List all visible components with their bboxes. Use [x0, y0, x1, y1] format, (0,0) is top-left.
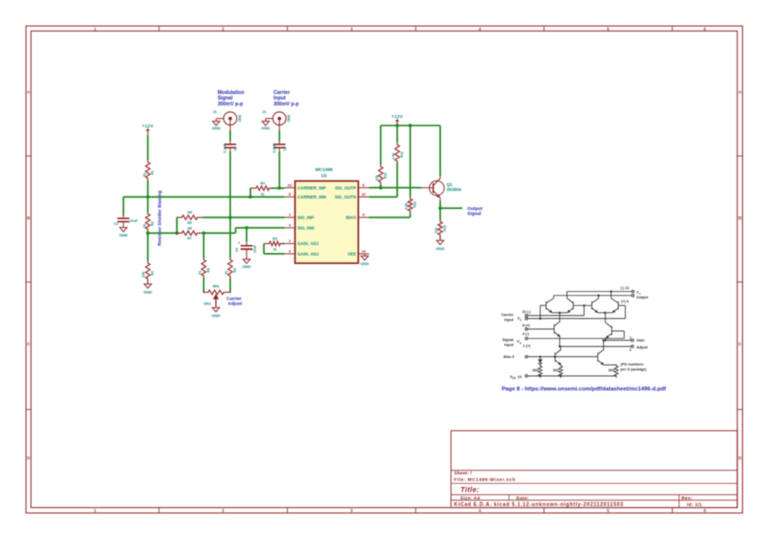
resistor R5 gain adjust	[264, 237, 284, 251]
inset junction bias diode	[539, 356, 541, 358]
svg-text:6: 6	[362, 183, 364, 187]
svg-text:1k: 1k	[142, 173, 146, 177]
wire node A to C3	[123, 196, 147, 198]
inset wire pin3 line	[560, 345, 632, 347]
inset junction vee diode	[539, 375, 541, 377]
wire CARRIER_INN row	[148, 196, 285, 198]
svg-text:(-) 12: (-) 12	[621, 286, 630, 290]
ground below R3	[143, 282, 152, 295]
junction R6 R7 node	[175, 231, 178, 234]
capacitor C3	[114, 215, 138, 226]
inset wire Q4a base	[618, 306, 625, 319]
inset junction bias Q7a	[554, 356, 556, 358]
svg-text:R4: R4	[260, 182, 264, 186]
wire down to C4	[246, 228, 248, 242]
svg-text:1M: 1M	[187, 211, 192, 215]
svg-text:500: 500	[533, 369, 539, 373]
note resistor divider biasing	[157, 190, 163, 246]
svg-text:R9: R9	[233, 268, 237, 272]
wire R2 to bias node B	[147, 231, 149, 233]
frame zone numbers top	[94, 26, 707, 31]
inset label pin8	[522, 324, 530, 328]
wire output stub	[440, 207, 462, 209]
frame zone letters right	[738, 90, 741, 461]
wire step up to SIG_INN	[235, 228, 237, 233]
svg-text:R5: R5	[273, 237, 277, 241]
inset transistor Q6a	[606, 323, 612, 338]
svg-text:Input: Input	[504, 318, 514, 322]
svg-text:GND: GND	[360, 261, 369, 266]
inset transistor Q8a	[598, 350, 604, 365]
resistor R9 pot chain right	[225, 258, 237, 278]
svg-text:A: A	[27, 90, 30, 95]
svg-text:C2: C2	[283, 146, 287, 150]
svg-text:2: 2	[630, 336, 632, 340]
wire R1 to bias node A	[147, 180, 149, 197]
op-amp U1 MC1496 body	[295, 181, 358, 263]
inset caption link	[502, 387, 666, 393]
svg-text:2: 2	[289, 239, 291, 243]
inset wire vee rail	[528, 375, 617, 377]
resistor R6 1M top	[177, 211, 204, 225]
svg-text:Output: Output	[467, 206, 483, 211]
inset terminal pin 6	[632, 294, 634, 296]
inset wire Q1a base	[540, 306, 546, 319]
svg-text:R11: R11	[400, 151, 404, 157]
svg-text:A: A	[738, 90, 741, 95]
inset label 500 left	[533, 369, 539, 373]
svg-text:File: MC1496-Mixer.sch: File: MC1496-Mixer.sch	[454, 477, 516, 482]
svg-text:1k: 1k	[142, 224, 146, 228]
svg-text:CARRIER_INP: CARRIER_INP	[297, 185, 326, 190]
wire J1 to C1	[229, 131, 231, 142]
inset junction pin2 node	[604, 339, 606, 341]
svg-text:10uF: 10uF	[130, 219, 138, 223]
junction output node	[439, 207, 442, 210]
svg-text:10k: 10k	[375, 175, 379, 181]
svg-text:GAIN_ADJ: GAIN_ADJ	[297, 241, 319, 246]
inset junction on pin12 rail	[610, 290, 612, 292]
svg-text:C: C	[520, 318, 522, 322]
inset terminal pin 5 bias	[525, 356, 527, 358]
inset wire Q8a collector riser	[602, 339, 604, 349]
svg-text:6.8k: 6.8k	[405, 203, 409, 210]
svg-text:51: 51	[261, 192, 265, 196]
svg-text:4 (-): 4 (-)	[522, 332, 529, 336]
svg-text:GND: GND	[119, 233, 128, 238]
svg-text:Output: Output	[636, 296, 649, 300]
inset wire pin2 line	[605, 339, 631, 341]
svg-text:GND: GND	[261, 126, 270, 131]
wire R7 node down to R8	[203, 233, 205, 258]
U1 pin 3 GAIN_ADJ	[285, 249, 320, 256]
U1 pin 4 SIG_INN	[285, 223, 315, 230]
transistor Q1 2N3904	[421, 176, 462, 201]
wire SIG_INP node down to R9	[229, 217, 231, 258]
svg-text:(+) 6: (+) 6	[621, 300, 629, 304]
frame zone ticks right	[737, 156, 742, 410]
frame zone letters left	[27, 90, 30, 461]
inset wire inner bases to pin10 line	[583, 306, 585, 316]
connector J2 BNC carrier	[262, 110, 291, 131]
svg-text:2N3904: 2N3904	[447, 187, 462, 192]
svg-text:R2: R2	[151, 221, 155, 225]
svg-text:51: 51	[198, 271, 202, 275]
inset wire right quad emitters	[598, 312, 613, 314]
inset resistor 500 left	[538, 364, 542, 378]
svg-text:BNC: BNC	[237, 115, 241, 123]
svg-text:GND: GND	[242, 264, 251, 269]
svg-text:S: S	[520, 341, 522, 345]
svg-text:MC1496: MC1496	[315, 167, 333, 172]
svg-text:per G package): per G package)	[621, 368, 648, 372]
junction carrier input node	[278, 186, 281, 189]
wire node B to R3	[147, 233, 149, 261]
ground at J2	[261, 119, 270, 131]
svg-text:Carrier: Carrier	[227, 296, 242, 301]
wire node A to R2	[147, 197, 149, 212]
wire down to C3	[122, 197, 124, 216]
svg-text:C3: C3	[114, 222, 118, 226]
inset transistor Q7a	[555, 350, 561, 365]
svg-text:GAIN_ADJ: GAIN_ADJ	[297, 251, 319, 256]
U1 pin 2 GAIN_ADJ	[285, 239, 320, 246]
inset label output	[621, 286, 649, 304]
inset wire Q5a emitter to pin3	[559, 337, 561, 347]
svg-text:3: 3	[289, 249, 291, 253]
wire SIG_OUTP row to Q1 base	[369, 187, 421, 189]
wire R13 to ground	[439, 237, 441, 239]
svg-text:Carrier: Carrier	[501, 313, 514, 317]
ground below C4	[242, 257, 251, 269]
svg-text:EE: EE	[512, 376, 516, 380]
svg-text:CARRIER_INN: CARRIER_INN	[297, 195, 326, 200]
inset transistor Q2a	[567, 298, 573, 312]
power +12V right	[391, 114, 403, 125]
svg-text:Signal: Signal	[502, 338, 513, 342]
inset wire Q7a collector riser	[560, 346, 562, 349]
resistor R4 carrier series	[250, 182, 272, 197]
resistor R13 emitter	[435, 220, 447, 237]
U1 pin 6 SIG_OUTP	[335, 183, 369, 190]
inset label gain adjust	[630, 336, 649, 352]
capacitor C2	[272, 141, 286, 153]
junction bias node B	[146, 231, 149, 234]
svg-text:1k: 1k	[273, 247, 277, 251]
wire +12V to R1	[147, 135, 149, 161]
inset terminal pin 10	[525, 314, 527, 316]
svg-text:KiCad E.D.A. kicad 5.1.12-unk: KiCad E.D.A. kicad 5.1.12-unknown-nightl…	[454, 502, 624, 508]
inset wire Q4a collector riser	[610, 292, 612, 299]
inset junction on pin6 rail	[598, 294, 600, 296]
svg-text:8: 8	[289, 193, 291, 197]
frame zone ticks top	[159, 26, 672, 31]
inset label carrier input	[501, 313, 522, 322]
svg-text:GND: GND	[143, 289, 152, 294]
U1 pin 5 BIAS	[346, 213, 369, 220]
svg-text:SIG_INN: SIG_INN	[297, 225, 314, 230]
wire SIG_OUTN row	[369, 196, 397, 198]
svg-text:1 (+): 1 (+)	[523, 344, 531, 348]
inset terminal pin 2	[631, 339, 633, 341]
svg-text:3: 3	[630, 348, 632, 352]
junction R12 at rail	[409, 124, 412, 127]
note output signal	[467, 206, 483, 216]
inset wire Q8a emitter over	[604, 365, 617, 366]
junction C4 tap	[245, 226, 248, 229]
wire R6 left down to node B row	[176, 217, 178, 233]
resistor R1 divider top	[142, 160, 154, 180]
power +12V left	[142, 123, 154, 134]
inset wire rail to pin 12	[567, 291, 632, 293]
svg-text:U1: U1	[321, 173, 327, 178]
wire rail down to R12	[409, 126, 411, 198]
svg-text:D: D	[738, 456, 741, 461]
inset wire pin4 line	[528, 328, 555, 330]
svg-text:R7: R7	[187, 237, 191, 241]
svg-text:BIAS: BIAS	[346, 215, 356, 220]
svg-text:C: C	[738, 342, 741, 347]
svg-text:GND: GND	[212, 313, 221, 318]
svg-text:12: 12	[361, 193, 365, 197]
capacitor C4 polarized	[235, 241, 257, 257]
title block sheet text	[454, 471, 516, 482]
inset wire pin10 line	[528, 315, 585, 317]
svg-text:100: 100	[435, 228, 439, 234]
wire C2 to CARRIER_INP node	[278, 151, 280, 188]
svg-text:VEE: VEE	[348, 251, 357, 256]
svg-text:GND: GND	[212, 126, 221, 131]
svg-text:Adjust: Adjust	[228, 301, 243, 306]
svg-text:Sheet: /: Sheet: /	[454, 471, 472, 476]
wire +12V rail	[381, 125, 441, 127]
svg-text:(Pin numbers: (Pin numbers	[621, 363, 644, 367]
title block title text	[461, 487, 480, 494]
junction bias node A	[146, 195, 149, 198]
svg-text:J2: J2	[262, 110, 266, 114]
inset label signal input	[502, 338, 521, 347]
svg-text:Size: A4: Size: A4	[460, 495, 480, 500]
svg-text:Id: 1/1: Id: 1/1	[687, 502, 702, 507]
svg-text:10 (-): 10 (-)	[522, 310, 531, 314]
svg-text:Resistor Divider Biasing: Resistor Divider Biasing	[157, 190, 163, 246]
inset label 500 middle	[553, 369, 559, 373]
svg-text:8 (+): 8 (+)	[522, 324, 530, 328]
svg-text:GND: GND	[436, 246, 445, 251]
svg-text:R3: R3	[151, 271, 155, 275]
svg-text:Page 8 - https://www.onsemi.co: Page 8 - https://www.onsemi.com/pdf/data…	[502, 387, 666, 393]
wire R12 to BIAS row	[409, 213, 411, 218]
svg-text:10uF: 10uF	[253, 245, 257, 253]
inset transistor Q1a	[546, 298, 554, 312]
resistor R10 collector load left	[375, 165, 387, 184]
inset label vee	[510, 375, 522, 380]
note modulation signal label	[218, 90, 245, 107]
svg-text:3.9k: 3.9k	[392, 153, 396, 160]
svg-text:C1: C1	[234, 146, 238, 150]
frame zone ticks left	[26, 156, 31, 410]
inset terminal pin 8	[525, 317, 527, 319]
inset transistor Q5a	[554, 321, 560, 336]
svg-text:+12V: +12V	[391, 114, 403, 119]
inset label pin numbers note	[621, 363, 648, 372]
inset transistor Q4a	[611, 298, 618, 312]
inset terminal pin 12	[632, 290, 634, 292]
inset junction pin8 line	[539, 318, 541, 320]
svg-text:Input: Input	[504, 343, 514, 347]
wire R4 left end down	[249, 188, 251, 197]
inset resistor 500 right	[614, 364, 618, 378]
potentiometer VR1 carrier adjust	[203, 284, 231, 306]
wire R11 down to SIG_OUTN	[396, 163, 398, 197]
svg-text:D: D	[27, 456, 30, 461]
inset label bias	[504, 355, 515, 359]
wire Q1 emitter down	[439, 201, 441, 220]
wire node B to R7	[148, 232, 177, 234]
frame zone ticks bottom	[159, 508, 672, 513]
svg-text:C4: C4	[235, 248, 239, 252]
title block dividers	[451, 470, 737, 507]
wire SIG_INN row	[236, 227, 285, 229]
wire rail to R11	[396, 126, 398, 143]
wire R9 to pot right	[229, 278, 231, 293]
title block kicad row	[454, 502, 702, 508]
junction R7 to pot chain	[202, 231, 205, 234]
svg-text:Title:: Title:	[461, 487, 480, 494]
svg-text:+: +	[238, 241, 240, 245]
inset wire left quad emitters	[552, 312, 567, 314]
title block box	[451, 431, 737, 508]
inset terminal pin 14 vee	[525, 375, 527, 377]
U1 pin 8 CARRIER_INN	[285, 193, 326, 200]
inset wire Q2a Q3a bases	[573, 305, 592, 307]
inset wire Q2a collector riser	[566, 292, 568, 299]
svg-text:300mV p-p: 300mV p-p	[218, 101, 243, 107]
wire R7 row to step	[204, 232, 236, 234]
junction R10 on SIG_OUTP row	[379, 186, 382, 189]
svg-text:Date:: Date:	[516, 495, 529, 500]
svg-text:10k: 10k	[141, 272, 145, 278]
wire R4 to CARRIER_INP pin	[271, 187, 285, 189]
ground below C3	[119, 225, 128, 237]
inset junction left quad emitters	[559, 312, 561, 314]
U1 reference labels	[315, 167, 333, 178]
inset terminal pin 1	[525, 337, 527, 339]
svg-text:R8: R8	[206, 268, 210, 272]
wire SIG_INP row	[203, 216, 285, 218]
svg-text:0.1uF: 0.1uF	[223, 144, 227, 153]
inset label 500 right	[609, 369, 615, 373]
svg-text:51: 51	[225, 271, 229, 275]
U1 pin 1 SIG_INP	[285, 213, 315, 220]
ground below R13	[436, 238, 445, 251]
wire rail down to R10	[380, 126, 382, 165]
note carrier input label	[274, 90, 299, 107]
ground below VR1	[212, 305, 221, 318]
resistor R2 divider middle	[142, 212, 154, 231]
svg-text:B: B	[27, 216, 30, 221]
svg-text:5: 5	[362, 213, 364, 217]
svg-text:SIG_INP: SIG_INP	[297, 215, 314, 220]
svg-text:VR1: VR1	[203, 301, 211, 306]
svg-text:Gain: Gain	[637, 339, 645, 343]
svg-text:50k: 50k	[213, 284, 220, 289]
svg-text:B: B	[738, 216, 741, 221]
inset wire pin1 line	[528, 331, 625, 339]
inset junction vee middle	[560, 375, 562, 377]
wire R10 to SIG_OUTP row	[380, 184, 382, 188]
inset junction right quad emitters	[604, 312, 606, 314]
inset junction Q5a emitter	[559, 345, 561, 347]
svg-text:500: 500	[553, 369, 559, 373]
resistor R8 pot chain left	[198, 258, 210, 278]
junction +12V at rail	[396, 124, 399, 127]
inset junction inner bases	[583, 304, 585, 306]
svg-text:R13: R13	[443, 225, 447, 231]
inset transistor Q3a	[592, 298, 599, 312]
wire C1 to SIG_INP node	[229, 151, 231, 217]
resistor R3 divider bottom	[141, 261, 154, 281]
svg-text:R6: R6	[187, 221, 191, 225]
junction modulation on SIG_INP row	[229, 216, 232, 219]
inset terminal pin 4	[525, 328, 527, 330]
svg-text:Rev:: Rev:	[682, 495, 693, 500]
inset wire rail to pin 6	[554, 296, 632, 299]
svg-text:R12: R12	[413, 201, 417, 207]
svg-text:1M: 1M	[187, 226, 192, 230]
ground at U1 VEE	[360, 254, 369, 267]
wire to GAIN_ADJ pin3	[264, 253, 285, 255]
resistor R11 collector load right	[392, 143, 404, 163]
connector J1 BNC modulation	[213, 110, 242, 131]
U1 pin 10 CARRIER_INP	[285, 183, 326, 190]
inset label pin1	[523, 344, 531, 348]
inset terminal pin 3	[631, 345, 633, 347]
inset wire bias line	[528, 356, 598, 358]
svg-text:BNC: BNC	[287, 115, 291, 123]
svg-text:300mV p-p: 300mV p-p	[274, 101, 299, 107]
svg-text:Adjust: Adjust	[637, 345, 649, 349]
title block size row	[460, 495, 692, 500]
svg-text:R1: R1	[151, 170, 155, 174]
svg-text:10: 10	[288, 183, 292, 187]
inset label pin4	[522, 332, 529, 336]
ground at J1	[212, 119, 221, 131]
svg-text:C: C	[27, 342, 30, 347]
svg-text:+12V: +12V	[142, 123, 154, 128]
frame zone numbers bottom	[94, 508, 707, 513]
svg-text:Bias 5: Bias 5	[504, 355, 515, 359]
capacitor C1	[223, 141, 237, 153]
junction R4 tap on CARRIER_INN row	[249, 195, 252, 198]
wire R3 to ground	[147, 281, 149, 282]
resistor R7 1M bottom	[177, 226, 205, 240]
svg-text:SIG_OUTN: SIG_OUTN	[335, 195, 356, 200]
wire R5 left down	[263, 244, 265, 254]
U1 pin 14 VEE	[348, 249, 369, 256]
inset wire Q6a collector riser	[604, 313, 606, 323]
svg-text:1: 1	[289, 213, 291, 217]
U1 pin 12 SIG_OUTN	[335, 193, 369, 200]
inset wire Q6a emitter	[604, 338, 606, 340]
resistor R12 bias feed	[405, 197, 417, 213]
inset wire pin8 line	[528, 318, 626, 320]
inset resistor 500 middle	[559, 364, 563, 378]
wire R8 to pot left	[203, 278, 205, 293]
wire BIAS row	[369, 216, 410, 218]
svg-text:0.1uF: 0.1uF	[272, 144, 276, 153]
wire rail to Q1 collector	[439, 126, 441, 177]
